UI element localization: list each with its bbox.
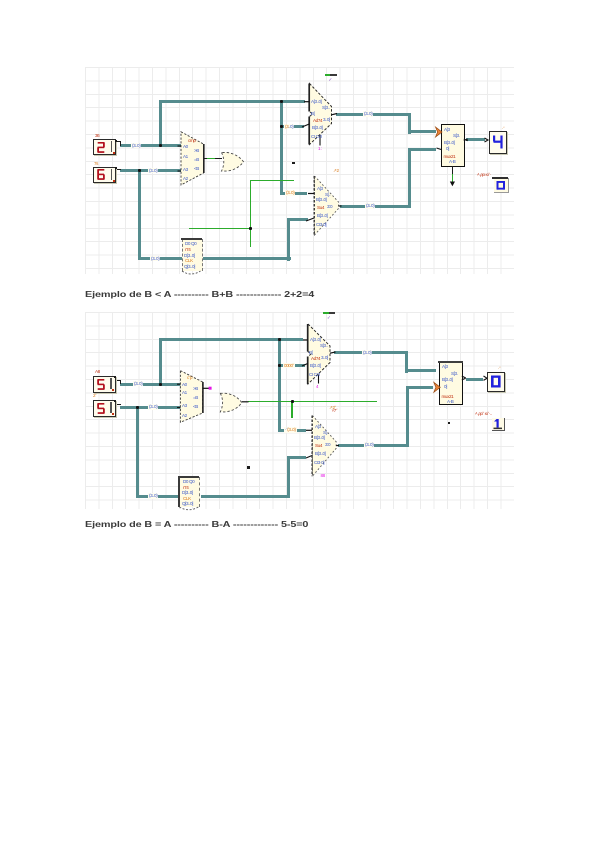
wire: riser to mux input 2 bbox=[406, 386, 409, 447]
green net junction bbox=[249, 227, 252, 230]
junction node display A bbox=[159, 144, 162, 147]
wire label on display A wire bbox=[133, 381, 143, 387]
wire label on subtractor output bbox=[365, 203, 375, 209]
stray node marker bbox=[247, 466, 250, 469]
junction node at branch bbox=[278, 364, 281, 367]
wire: adder U6 output bus bbox=[334, 351, 408, 354]
subtractor U2 pin text bbox=[317, 186, 323, 191]
green net: horizontal upper segment bbox=[250, 180, 294, 181]
wire: vertical bus at x281 down to subtractor row bbox=[280, 100, 283, 195]
wire: subtractor U7 output bus bbox=[338, 444, 409, 447]
display A: 7-seg showing 2 bbox=[93, 139, 116, 155]
wire: display A to comparator bbox=[120, 383, 181, 386]
comparator output wire (A=B) bbox=[204, 158, 222, 159]
stray dot under mux bbox=[448, 422, 451, 425]
mux ground pin (green with arrow) bbox=[452, 166, 453, 175]
stray node marker bbox=[292, 162, 295, 165]
wire: vertical bus at x279 down to subtractor row bbox=[278, 338, 281, 432]
wire: into mux input 1 bbox=[405, 369, 436, 372]
green net: lower horizontal segment bbox=[189, 228, 252, 229]
register/latch box at bottom bbox=[182, 239, 203, 271]
wire label on subtractor output bbox=[364, 442, 374, 448]
wire: bottom run from register box to riser bbox=[201, 495, 291, 498]
comparator U8 pin text bbox=[182, 382, 187, 387]
junction node display B bbox=[136, 406, 139, 409]
wire: bottom run into register box bbox=[136, 495, 182, 498]
wire: into mux input 2 bbox=[406, 386, 433, 389]
mux U5 box bbox=[441, 124, 465, 167]
wire label on bottom run bbox=[148, 493, 158, 499]
display B: 7-seg showing 5 bbox=[93, 400, 116, 417]
display B label bbox=[94, 161, 98, 166]
wire: vertical drop to display A row bbox=[159, 100, 162, 146]
wire: top bus from node to adder U6 bbox=[159, 338, 303, 341]
grid panel: circuit 2 bbox=[85, 312, 514, 509]
mux U5 text bbox=[444, 127, 450, 132]
wire: bottom run from register box to riser bbox=[201, 257, 291, 260]
wire: branch to adder U6 input B bbox=[278, 364, 305, 367]
wire: bus into subtractor U2 input A bbox=[280, 192, 307, 195]
wire label A(3..0) on display A wire bbox=[131, 143, 141, 149]
comparator U3 bbox=[0, 0, 600, 300]
wire label on display B wire bbox=[148, 404, 158, 410]
logic probe box: 0 bbox=[477, 172, 491, 177]
mux U10 box bbox=[439, 362, 463, 405]
adder U6 pin text bbox=[310, 337, 320, 342]
junction node display A bbox=[159, 383, 162, 386]
green net: vertical stub down bbox=[291, 401, 292, 419]
green net: long horizontal from OR output bbox=[248, 401, 376, 402]
wire: subtractor U2 output bus bbox=[340, 205, 411, 208]
wire: riser to subtractor input B bbox=[287, 456, 290, 498]
wire: riser to subtractor input B bbox=[287, 218, 290, 260]
red tiny label under green bbox=[332, 408, 338, 413]
adder U1 (ALU shape) bbox=[0, 0, 600, 300]
display B: 7-seg showing 6 bbox=[93, 167, 116, 184]
wire: vertical from display B down to bottom run bbox=[138, 169, 141, 260]
comparator pin text bbox=[183, 144, 188, 149]
output display: blue 4 bbox=[489, 131, 507, 154]
wire label on bottom run bbox=[150, 256, 160, 262]
wire label on subtractor A input bbox=[285, 190, 295, 196]
caption 2 bbox=[85, 519, 308, 529]
display A label bbox=[95, 133, 99, 138]
green net junction bbox=[291, 400, 294, 403]
wire label on adder output bbox=[363, 111, 373, 117]
display A: 7-seg showing 5 bbox=[93, 376, 116, 393]
wire label on subtractor A input bbox=[284, 427, 297, 433]
wire: drop to mux input 1 bbox=[405, 351, 408, 373]
display pin dots bbox=[115, 140, 117, 142]
register box text bbox=[183, 479, 194, 484]
wire: riser to mux input 2 bbox=[408, 148, 411, 208]
wire: display B to comparator bbox=[120, 406, 181, 409]
wire: mux output to display bbox=[466, 378, 483, 381]
mux U10 text bbox=[442, 364, 448, 369]
register box text bbox=[185, 241, 196, 246]
junction node on top bus bbox=[278, 338, 281, 341]
junction node on top bus bbox=[280, 100, 283, 103]
wire: top bus A from node to adder U1 bbox=[159, 100, 305, 103]
subtractor U2 (triangle) bbox=[0, 0, 600, 300]
wire: bottom run into register box bbox=[138, 257, 182, 260]
register/latch box at bottom bbox=[179, 477, 200, 507]
wire label B(3..0) on display B wire bbox=[148, 168, 158, 174]
wire: display B to comparator bbox=[120, 169, 181, 172]
wire: bus into subtractor U7 input A bbox=[278, 429, 306, 432]
grid panel: circuit 1 bbox=[85, 67, 514, 274]
wire: mux output to display bbox=[466, 138, 485, 141]
wire: adder U1 output bus bbox=[336, 113, 411, 116]
wire: vertical drop to display A row bbox=[159, 338, 162, 386]
wire: into subtractor U2 input B bbox=[287, 218, 308, 221]
OR gate U4 bbox=[0, 0, 600, 300]
wire label 0000 on branch bbox=[283, 363, 295, 369]
wire: display A to comparator bbox=[120, 144, 181, 147]
wire: into subtractor U7 input B bbox=[287, 456, 306, 459]
junction node at branch bbox=[280, 125, 283, 128]
green net: vertical segment bbox=[250, 180, 251, 247]
adder U1 top decor bbox=[325, 74, 331, 76]
wire: branch to adder U1 input B bbox=[280, 125, 304, 128]
output display: blue 0 bbox=[487, 372, 505, 392]
adder U1 pin text bbox=[311, 99, 321, 104]
junction node display B bbox=[138, 169, 141, 172]
mux orange select arrow bbox=[0, 0, 600, 300]
adder U6 top decor bbox=[323, 312, 329, 314]
wire: into mux input 1 bbox=[408, 130, 436, 133]
wire: vertical from display B down to bottom run bbox=[136, 406, 139, 498]
wire label on adder output bbox=[362, 350, 372, 356]
logic probe box: 1 bbox=[475, 411, 492, 416]
wire: drop to mux input 1 bbox=[408, 113, 411, 134]
caption 1 bbox=[85, 289, 314, 299]
wire label on branch bbox=[284, 124, 294, 130]
subtractor U7 pin text bbox=[315, 424, 321, 429]
wire: into mux input 2 bbox=[408, 148, 436, 151]
